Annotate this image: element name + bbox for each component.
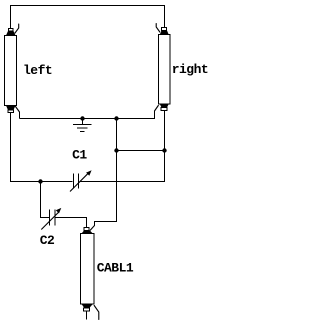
svg-text:right: right bbox=[172, 62, 209, 77]
svg-text:C2: C2 bbox=[40, 233, 55, 248]
svg-text:C1: C1 bbox=[72, 148, 87, 163]
svg-text:CABL1: CABL1 bbox=[97, 260, 134, 275]
svg-text:left: left bbox=[23, 63, 52, 78]
